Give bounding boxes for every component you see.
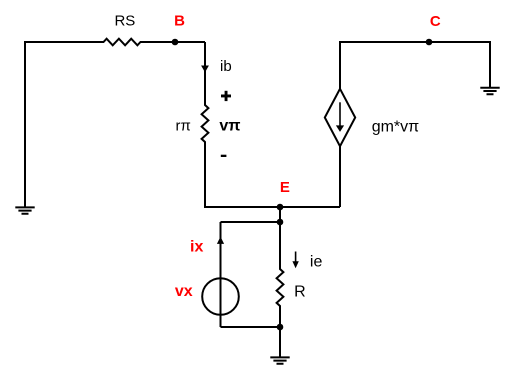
- svg-text:gm*vπ: gm*vπ: [372, 119, 420, 136]
- svg-text:C: C: [430, 13, 441, 30]
- svg-text:ib: ib: [220, 58, 232, 75]
- svg-text:rπ: rπ: [176, 118, 191, 135]
- svg-text:RS: RS: [114, 13, 135, 30]
- svg-text:vx: vx: [175, 283, 193, 300]
- svg-text:ie: ie: [310, 253, 323, 270]
- svg-text:E: E: [280, 179, 290, 196]
- svg-text:ix: ix: [190, 239, 203, 256]
- svg-text:R: R: [294, 283, 306, 300]
- svg-text:vπ: vπ: [219, 118, 240, 135]
- svg-text:B: B: [174, 13, 185, 30]
